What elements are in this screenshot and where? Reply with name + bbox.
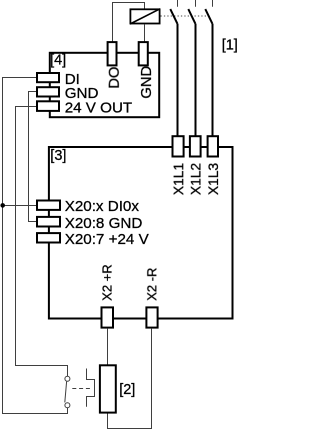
wire 24V OUT to thermal switch [16, 107, 68, 377]
thermal switch contact bottom [65, 403, 70, 408]
svg-text:GND: GND [139, 66, 155, 99]
svg-text:X1L2: X1L2 [189, 163, 204, 195]
terminal X2-R [146, 307, 157, 327]
wire pole2 to X1L2 [195, 24, 197, 137]
svg-text:[4]: [4] [50, 53, 66, 69]
contactor contact pole 1 [170, 9, 177, 24]
wire GND to X20:8 [29, 92, 37, 222]
wire DO output to contactor coil [113, 3, 145, 42]
box [3] servo drive [49, 147, 233, 319]
node junction dot [0, 203, 5, 208]
thermal switch contact top [65, 376, 70, 381]
terminal DO [108, 42, 117, 65]
svg-text:X1L1: X1L1 [171, 163, 186, 195]
terminal GND (module) [37, 87, 59, 96]
wire braking resistor to X2-R [108, 329, 152, 429]
terminal DI [37, 73, 59, 82]
thermal switch blade [65, 382, 67, 403]
mechanical link dashed (thermal element to contact) [72, 388, 91, 390]
box [4] I/O module [50, 53, 159, 117]
braking resistor [2] [100, 365, 116, 412]
mechanical linkage dashed line coil to contacts [161, 15, 210, 17]
terminal 24 V OUT [37, 101, 59, 111]
wire pole3 to X1L3 [212, 24, 214, 137]
svg-text:X1L3: X1L3 [206, 163, 221, 196]
svg-text:X2 -R: X2 -R [144, 268, 159, 301]
wire pole1 to X1L1 [177, 24, 179, 137]
wire L1 supply stub [177, 0, 179, 7]
svg-text:X20:7 +24 V: X20:7 +24 V [65, 231, 150, 248]
wire L3 supply stub [212, 0, 214, 7]
svg-text:[3]: [3] [50, 148, 66, 164]
svg-text:[1]: [1] [222, 38, 238, 54]
terminal GND (module top) [139, 42, 148, 65]
contactor contact pole 3 [205, 9, 212, 24]
terminal X20:8 [37, 217, 60, 227]
wire junction branch to X20:x [3, 205, 37, 207]
svg-text:24 V OUT: 24 V OUT [65, 100, 133, 117]
wire L2 supply stub [195, 0, 197, 7]
terminal X1L3 [208, 136, 218, 156]
svg-text:X20:8 GND: X20:8 GND [65, 215, 143, 232]
svg-text:DO: DO [107, 66, 123, 88]
thermal element symbol [87, 369, 95, 407]
contactor coil K1 [130, 9, 160, 24]
svg-text:X20:x DI0x: X20:x DI0x [65, 198, 140, 215]
terminal X20:7 [37, 233, 60, 242]
wire DI to X20:x and thermal switch (left rail) [3, 78, 68, 414]
contactor contact pole 2 [188, 9, 195, 24]
terminal X1L2 [190, 136, 201, 156]
wire contactor coil to GND terminal [144, 25, 146, 42]
terminal X20:x [37, 201, 60, 210]
terminal X1L1 [173, 136, 184, 156]
terminal X2+R [102, 307, 114, 327]
svg-text:[2]: [2] [119, 382, 135, 398]
svg-text:X2 +R: X2 +R [99, 264, 114, 301]
wire X2+R to braking resistor [107, 329, 109, 365]
